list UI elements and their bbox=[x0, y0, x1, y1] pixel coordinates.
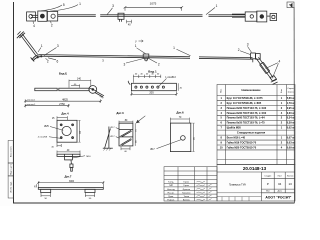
svg-text:Планка 8х60 ГОСТ103-76, L=160: Планка 8х60 ГОСТ103-76, L=160 bbox=[227, 111, 267, 115]
signature scribbles bbox=[197, 181, 212, 200]
svg-text:1: 1 bbox=[79, 2, 81, 6]
dim 40 under rod1 clamp bbox=[127, 20, 132, 24]
svg-text:отм.пов.1: отм.пов.1 bbox=[27, 99, 35, 101]
stamp box 3 bbox=[8, 176, 13, 198]
svg-text:Планка 8х60 ГОСТ103-76, L=64: Планка 8х60 ГОСТ103-76, L=64 bbox=[227, 116, 266, 120]
diagonal rod bbox=[21, 35, 36, 55]
view Б dims bbox=[69, 80, 91, 88]
title block main outline bbox=[217, 165, 295, 202]
turnbuckle sleeve bbox=[260, 65, 267, 74]
view marker above rod2 clamp bbox=[139, 40, 144, 42]
svg-text:1: 1 bbox=[173, 46, 175, 50]
right foot bbox=[85, 189, 95, 192]
svg-text:Кол.: Кол. bbox=[281, 88, 283, 93]
left end radius arc bbox=[128, 81, 130, 85]
side bar bbox=[57, 154, 80, 156]
detail3 dims bbox=[116, 121, 135, 151]
rod 1 bbox=[58, 14, 246, 16]
svg-text:Дет.6: Дет.6 bbox=[176, 111, 184, 115]
svg-text:Гарин: Гарин bbox=[183, 185, 189, 187]
svg-text:2: 2 bbox=[47, 60, 49, 64]
svg-text:Траверса ТУА: Траверса ТУА bbox=[229, 183, 246, 187]
svg-text:205: 205 bbox=[149, 91, 154, 95]
saddle bracket bbox=[32, 55, 42, 60]
dimension 1075 top bbox=[124, 6, 184, 11]
stage grid texts bbox=[264, 175, 293, 177]
rod1 break gap bbox=[203, 13, 209, 18]
svg-text:Подп.и дата: Подп.и дата bbox=[11, 163, 13, 175]
svg-text:Стандартные изделия: Стандартные изделия bbox=[237, 131, 266, 135]
svg-text:2: 2 bbox=[238, 48, 240, 52]
svg-text:Планка 8х60 ГОСТ103-76, L=190: Планка 8х60 ГОСТ103-76, L=190 bbox=[227, 106, 267, 110]
svg-text:5: 5 bbox=[63, 3, 65, 7]
box5 right bbox=[257, 11, 267, 22]
diagonal slot 2 bbox=[121, 139, 132, 145]
hanging bolt bbox=[70, 160, 72, 164]
rod1 sleeve right bbox=[232, 13, 245, 15]
svg-text:Шайба М20: Шайба М20 bbox=[227, 126, 242, 130]
svg-text:Ковалев: Ковалев bbox=[182, 192, 191, 194]
anchor end plate top-left bbox=[18, 32, 24, 37]
svg-text:3: 3 bbox=[124, 62, 126, 66]
bottom-left small cells of title block bbox=[217, 197, 261, 201]
rod2 break gap bbox=[190, 55, 199, 59]
callout labels assembly1 bbox=[33, 2, 218, 28]
center block bbox=[65, 156, 73, 160]
view arrow detail3 bbox=[136, 116, 145, 123]
svg-text:Дет.7: Дет.7 bbox=[64, 174, 71, 178]
detail3 plate bbox=[119, 123, 133, 146]
svg-text:3: 3 bbox=[247, 43, 249, 47]
strip bottom dimension bbox=[130, 83, 178, 95]
table header bbox=[221, 88, 295, 93]
svg-text:Стадия: Стадия bbox=[264, 175, 271, 177]
rod 2 bbox=[41, 55, 253, 58]
svg-text:К.отд.: К.отд. bbox=[168, 182, 174, 184]
box4 right bbox=[245, 12, 257, 21]
svg-text:Лист: Лист bbox=[278, 175, 282, 177]
svg-text:Пров.: Пров. bbox=[168, 196, 174, 198]
svg-text:4825: 4825 bbox=[62, 97, 68, 101]
overall dimension line 1 bbox=[24, 99, 102, 102]
signature table texts bbox=[167, 182, 191, 202]
rod1 break gap 2 bbox=[96, 14, 100, 18]
svg-text:Круг 10 ГОСТ2590-88, L=865: Круг 10 ГОСТ2590-88, L=865 bbox=[227, 101, 262, 105]
callout leaders assembly1 bbox=[33, 5, 215, 24]
link between box1 box2 bbox=[31, 14, 38, 16]
pole symbol bbox=[103, 127, 113, 151]
svg-text:Вид Б: Вид Б bbox=[59, 72, 67, 76]
svg-text:Взам.инв.№: Взам.инв.№ bbox=[10, 146, 13, 157]
hole spacing dimension chain bbox=[133, 75, 161, 77]
svg-text:1,79 кг: 1,79 кг bbox=[287, 101, 295, 105]
strip holes bbox=[135, 86, 137, 88]
diagonal slot 1 bbox=[121, 130, 132, 136]
svg-text:1: 1 bbox=[135, 44, 137, 48]
svg-text:Поз.: Поз. bbox=[221, 88, 223, 93]
svg-text:Наименование: Наименование bbox=[241, 88, 261, 92]
svg-text:Гайка М20 ГОСТ5915-70: Гайка М20 ГОСТ5915-70 bbox=[227, 145, 257, 149]
svg-text:13: 13 bbox=[288, 182, 292, 186]
svg-text:1 отв.Ø13: 1 отв.Ø13 bbox=[165, 77, 176, 79]
svg-text:04: 04 bbox=[278, 182, 282, 186]
leader from block bbox=[72, 156, 85, 158]
svg-text:Фролов: Фролов bbox=[183, 188, 191, 191]
svg-text:4: 4 bbox=[33, 24, 35, 28]
svg-text:0,30 кг: 0,30 кг bbox=[287, 111, 295, 115]
signature table left section bbox=[164, 167, 217, 201]
svg-text:Горин: Горин bbox=[183, 182, 189, 184]
plate bbox=[57, 120, 77, 142]
overall dimension line 2 bbox=[24, 104, 70, 107]
right joint clamp bbox=[251, 53, 256, 59]
format stamp box top right bbox=[287, 2, 294, 8]
svg-text:5,66 кг: 5,66 кг bbox=[287, 96, 295, 100]
bar segment 1 bbox=[35, 88, 57, 91]
svg-text:Ø25: Ø25 bbox=[44, 125, 49, 128]
strip right thickness dim bbox=[177, 83, 179, 90]
svg-text:Нач.гр.: Нач.гр. bbox=[168, 192, 175, 194]
svg-text:140: 140 bbox=[77, 78, 82, 81]
corner holes bbox=[60, 124, 62, 126]
anchor tip hatch bbox=[271, 79, 277, 82]
svg-text:3: 3 bbox=[57, 44, 59, 48]
frame bottom border bbox=[14, 202, 295, 204]
svg-text:Нач.отд: Нач.отд bbox=[167, 189, 175, 191]
svg-text:Р: Р bbox=[267, 182, 269, 186]
svg-text:Дет.4: Дет.4 bbox=[61, 112, 69, 116]
left foot bbox=[41, 189, 51, 192]
svg-text:0,34 кг: 0,34 кг bbox=[287, 116, 295, 120]
box2 clamp bbox=[38, 11, 47, 21]
svg-text:2750: 2750 bbox=[59, 102, 65, 106]
svg-text:АООТ "РОСЭП": АООТ "РОСЭП" bbox=[265, 195, 291, 199]
svg-text:Листов: Листов bbox=[287, 175, 294, 177]
left margin stamp boxes bbox=[8, 141, 13, 199]
svg-text:0,39 кг: 0,39 кг bbox=[287, 121, 295, 125]
svg-text:Справ.: Справ. bbox=[287, 88, 294, 90]
clevis right end bbox=[267, 15, 270, 17]
diagonal tail bbox=[95, 93, 103, 97]
svg-text:0,09 кг: 0,09 кг bbox=[287, 145, 295, 149]
svg-text:20.0148-13: 20.0148-13 bbox=[243, 166, 267, 171]
leader to hole bbox=[159, 78, 167, 86]
bar segment 2 bbox=[59, 88, 89, 91]
svg-text:4 отв.Ø18: 4 отв.Ø18 bbox=[38, 136, 48, 138]
frame right border bbox=[293, 7, 295, 203]
svg-text:1075: 1075 bbox=[150, 2, 157, 6]
svg-text:Круг 10 ГОСТ2590-88, L=1075: Круг 10 ГОСТ2590-88, L=1075 bbox=[227, 96, 264, 100]
svg-text:Агеева: Агеева bbox=[183, 199, 190, 202]
eye bolt circle bbox=[89, 86, 97, 94]
svg-text:3000: 3000 bbox=[69, 181, 75, 183]
svg-text:Инв.№ подл.: Инв.№ подл. bbox=[10, 181, 13, 193]
turnbuckle end fitting bbox=[270, 76, 276, 81]
feet dims bbox=[41, 193, 95, 197]
svg-text:0,07 кг: 0,07 кг bbox=[287, 136, 295, 140]
box1 left fitting bbox=[27, 12, 36, 21]
svg-text:масса: масса bbox=[288, 91, 295, 93]
svg-text:Болт М16 L=40: Болт М16 L=40 bbox=[227, 136, 246, 140]
svg-text:3: 3 bbox=[112, 4, 114, 8]
strip bar bbox=[38, 187, 103, 189]
stamp box 2 bbox=[8, 163, 13, 176]
turnbuckle diagonal bbox=[256, 58, 271, 78]
svg-text:Ø17: Ø17 bbox=[150, 149, 155, 151]
svg-text:1: 1 bbox=[41, 44, 43, 48]
rod1 mid clamp bbox=[118, 13, 124, 19]
frame left border bbox=[13, 2, 15, 204]
strip plate bbox=[128, 81, 176, 91]
assembly2 callout labels bbox=[41, 43, 281, 67]
svg-text:0,95 кг: 0,95 кг bbox=[287, 106, 295, 110]
svg-text:ГИП: ГИП bbox=[169, 185, 174, 187]
svg-text:0,02 кг: 0,02 кг bbox=[287, 126, 295, 130]
svg-text:1: 1 bbox=[216, 4, 218, 8]
assembly2 callout leaders bbox=[38, 46, 278, 78]
svg-text:6: 6 bbox=[57, 60, 59, 64]
detail4 labels bbox=[49, 120, 81, 142]
stamp box 1 bbox=[8, 141, 13, 164]
box3 clamp bbox=[47, 11, 57, 21]
svg-text:2: 2 bbox=[158, 62, 160, 66]
svg-text:0,03 кг: 0,03 кг bbox=[287, 141, 295, 145]
svg-text:2: 2 bbox=[51, 23, 53, 27]
table rows bbox=[220, 96, 295, 149]
format stamp glyph bbox=[289, 4, 292, 7]
svg-text:4: 4 bbox=[279, 60, 281, 64]
svg-text:Разраб.: Разраб. bbox=[167, 200, 175, 202]
center hole bbox=[62, 126, 71, 135]
detail4 bottom dims bbox=[57, 142, 61, 147]
svg-text:Планка 8х55 ГОСТ103-76, L=75: Планка 8х55 ГОСТ103-76, L=75 bbox=[227, 121, 266, 125]
svg-text:Дет.3: Дет.3 bbox=[116, 111, 124, 115]
svg-text:Гайка М16 ГОСТ5915-70: Гайка М16 ГОСТ5915-70 bbox=[227, 141, 257, 145]
svg-text:Титов: Титов bbox=[184, 196, 190, 198]
svg-text:отм.пов.5: отм.пов.5 bbox=[27, 104, 35, 106]
rod2 mid clamp bbox=[143, 54, 149, 58]
